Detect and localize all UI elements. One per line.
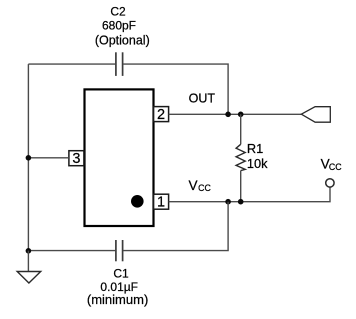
- wire top right segment: [123, 64, 228, 114]
- terminal Vcc circle: [326, 179, 334, 187]
- node junction pin3 rail: [26, 155, 32, 161]
- svg-text:C2: C2: [110, 5, 126, 19]
- node junction ground tap: [26, 248, 32, 254]
- output tag connector: [301, 107, 330, 123]
- svg-text:10k: 10k: [247, 156, 268, 171]
- pin 2 box: [154, 107, 169, 123]
- label Vcc right: [321, 157, 343, 172]
- svg-text:C1: C1: [113, 267, 129, 281]
- svg-text:R1: R1: [247, 141, 263, 156]
- node junction OUT/R1: [238, 112, 244, 118]
- pin 3 box: [69, 151, 84, 168]
- wire Vcc line: [169, 187, 330, 202]
- pin 1 box: [154, 194, 169, 210]
- svg-text:CC: CC: [329, 162, 342, 172]
- node junction Vcc/R1: [238, 199, 244, 205]
- ground symbol: [17, 272, 41, 284]
- svg-text:3: 3: [72, 151, 80, 167]
- label C2 value: [95, 5, 150, 48]
- svg-text:2: 2: [157, 107, 165, 123]
- wire left rail: [27, 64, 29, 251]
- svg-text:680pF: 680pF: [102, 18, 136, 32]
- node junction OUT/C2: [225, 112, 231, 118]
- resistor R1: [236, 114, 245, 201]
- wire top left segment: [28, 63, 115, 65]
- node junction Vcc/C1 drop: [225, 199, 231, 205]
- svg-text:CC: CC: [198, 183, 211, 193]
- capacitor C1: [116, 240, 123, 261]
- svg-text:(minimum): (minimum): [87, 292, 148, 307]
- label Vcc at pin 1: [189, 178, 212, 193]
- wire ground stem: [27, 251, 29, 272]
- svg-text:V: V: [189, 178, 198, 193]
- IC pin-1 marker dot: [131, 195, 144, 208]
- capacitor C2: [116, 52, 123, 76]
- IC U1 body: [85, 89, 154, 226]
- svg-text:OUT: OUT: [189, 92, 216, 106]
- wire pin3 stub: [28, 157, 69, 159]
- wire bottom left segment: [28, 250, 115, 252]
- label C1 value: [87, 267, 148, 308]
- svg-text:(Optional): (Optional): [95, 33, 150, 47]
- wire OUT line: [169, 113, 302, 115]
- wire drop to C1 line: [123, 202, 228, 251]
- svg-text:1: 1: [157, 195, 165, 211]
